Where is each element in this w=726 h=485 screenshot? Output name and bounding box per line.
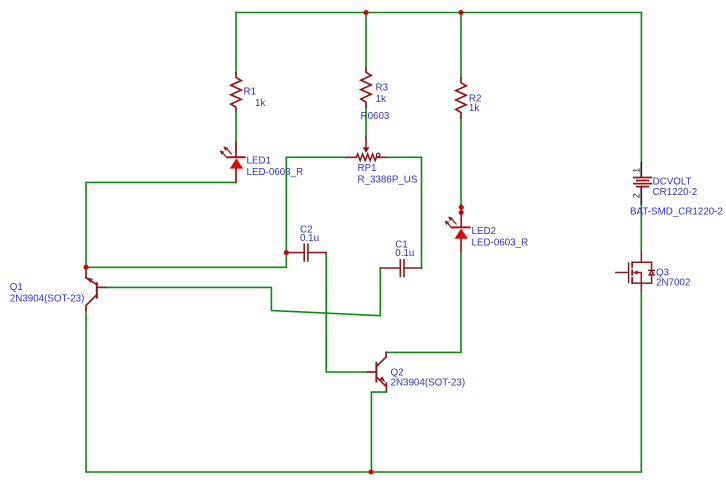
wire top rail [236, 12, 641, 14]
resistor R2 [456, 78, 466, 118]
svg-text:1: 1 [632, 168, 642, 173]
LED2 [444, 210, 469, 251]
wire right rail upper [640, 13, 642, 163]
capacitor C2 [286, 244, 326, 261]
svg-text:CR1220-2: CR1220-2 [653, 187, 698, 198]
svg-text:1k: 1k [469, 103, 479, 114]
svg-text:BAT-SMD_CR1220-2: BAT-SMD_CR1220-2 [630, 206, 723, 217]
wire C2 right to Q2 base [326, 253, 367, 372]
wire Q3 source to bottom rail [640, 290, 642, 472]
wire RP1 left [286, 156, 346, 158]
wire R1 to LED1 [235, 111, 237, 152]
svg-text:R3: R3 [376, 83, 389, 94]
svg-text:2: 2 [632, 193, 642, 198]
LED1 [220, 143, 245, 183]
wire R2 to LED2 [460, 118, 462, 205]
wire R3 to RP1 arrow [365, 107, 367, 137]
capacitor C1 [380, 260, 421, 277]
wire battery to Q3 [640, 204, 642, 253]
battery DCVOLT [634, 163, 651, 204]
wire LED2 to Q2 collector [386, 251, 461, 352]
svg-text:R_3386P_US: R_3386P_US [358, 174, 418, 185]
wire Q2 emitter drop [371, 392, 386, 472]
svg-text:LED1: LED1 [247, 155, 272, 166]
resistor R3 [361, 68, 371, 107]
svg-text:LED-0603_R: LED-0603_R [472, 237, 529, 248]
junction dot top R3 [363, 10, 368, 15]
resistor R1 [231, 73, 241, 111]
svg-text:0.1u: 0.1u [395, 248, 414, 259]
transistor Q2 [367, 352, 386, 391]
svg-text:2N7002: 2N7002 [656, 278, 690, 289]
junction dot LED2 upper [459, 205, 464, 210]
potentiometer RP1 [347, 137, 386, 160]
wire RP1 left drop to C2 [285, 157, 287, 252]
svg-text:LED-0603_R: LED-0603_R [247, 167, 304, 178]
wire R3 top drop [365, 13, 367, 69]
junction dot top R2 [458, 10, 463, 15]
svg-text:1k: 1k [376, 94, 386, 105]
wire LED1 bottom to left [86, 182, 236, 265]
svg-text:2N3904(SOT-23): 2N3904(SOT-23) [10, 293, 85, 304]
junction dot C2 node [284, 250, 289, 255]
wire bottom rail [86, 471, 641, 473]
transistor Q1 [86, 267, 106, 311]
wire R2 top drop [460, 13, 462, 79]
wire Q1 base run to C1 [106, 268, 381, 316]
wire RP1 right to C1 right [386, 157, 422, 268]
svg-text:2N3904(SOT-23): 2N3904(SOT-23) [391, 378, 466, 389]
wire C2 node down left [86, 253, 286, 268]
svg-text:RP1: RP1 [358, 163, 377, 174]
svg-text:R0603: R0603 [361, 111, 390, 122]
svg-text:0.1u: 0.1u [300, 233, 319, 244]
mosfet Q3 [616, 253, 655, 291]
svg-text:LED2: LED2 [472, 226, 497, 237]
junction dot LED2 lower [459, 210, 464, 215]
svg-text:R1: R1 [244, 87, 257, 98]
wire R1 top drop [235, 13, 237, 73]
wire Q1 collector drop [85, 311, 87, 472]
svg-text:Q1: Q1 [10, 282, 23, 293]
junction dot bottom rail [368, 469, 373, 474]
svg-text:1k: 1k [255, 98, 265, 109]
junction dot Q1 emitter node [83, 265, 88, 270]
